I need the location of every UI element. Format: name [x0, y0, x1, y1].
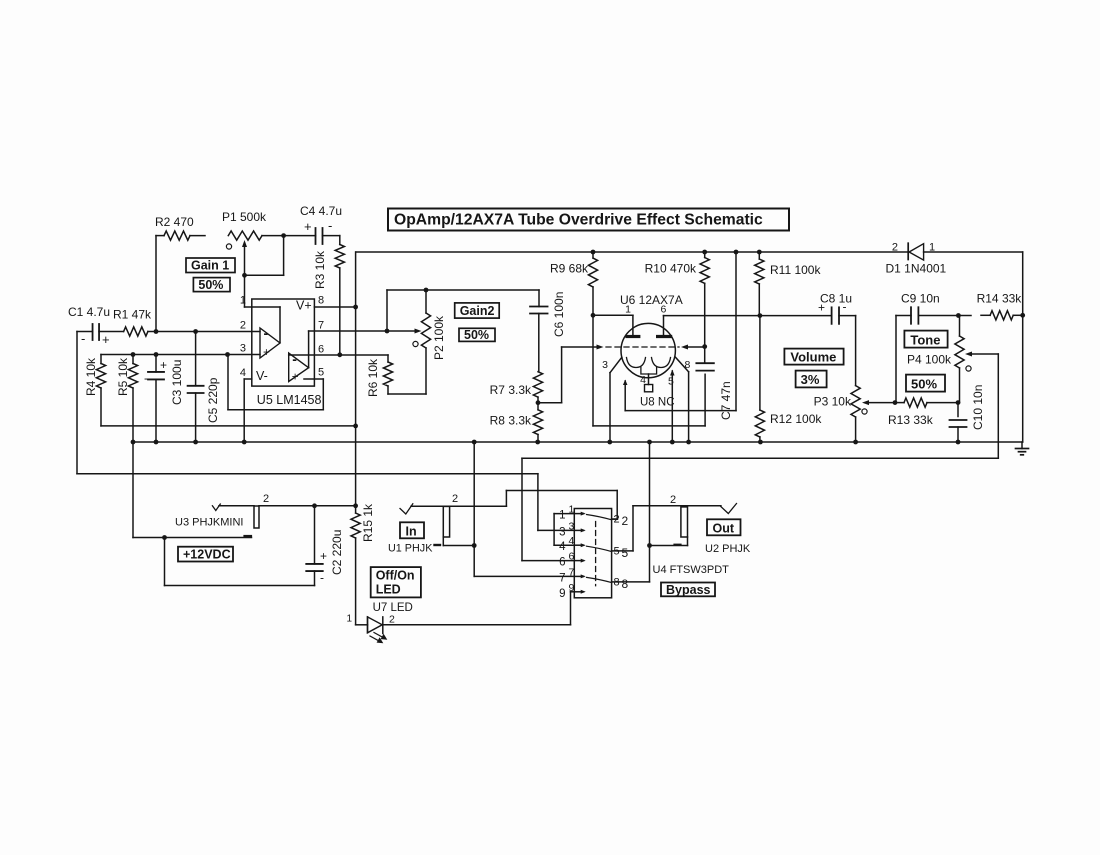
- svg-text:-: -: [843, 300, 847, 314]
- wire: R2 branch up from input node: [155, 236, 157, 332]
- svg-text:-: -: [320, 571, 324, 585]
- svg-text:2: 2: [892, 242, 898, 254]
- label box 50% (gain2): [459, 328, 495, 342]
- power jack U3 barrel: [254, 493, 269, 528]
- svg-text:Volume: Volume: [790, 350, 836, 365]
- capacitor C4 4.7u: [284, 204, 342, 244]
- wire: LED cathode to switch pin9: [383, 592, 571, 625]
- wire: switch pin3 connection: [538, 529, 574, 531]
- svg-text:-: -: [264, 325, 269, 341]
- svg-text:Off/On: Off/On: [376, 569, 415, 583]
- svg-text:Gain 1: Gain 1: [191, 259, 229, 273]
- wire: U3 tip +12V node to C2 and R15: [259, 503, 358, 508]
- label box Out: [707, 519, 741, 535]
- capacitor C5 220p: [188, 332, 220, 445]
- svg-text:R14 33k: R14 33k: [977, 291, 1023, 305]
- wire: U1 sleeve to ground line: [435, 537, 477, 548]
- wire: P2 top to wiper node and C6: [387, 288, 539, 331]
- wire: C2 ground return: [165, 538, 315, 586]
- wire: P1 wiper down to U5 pin1 output: [245, 275, 281, 342]
- wire: U2 sleeve to ground: [650, 537, 688, 546]
- svg-text:6: 6: [559, 557, 565, 569]
- tube grid dashed line with arrows: [606, 345, 705, 350]
- potentiometer P2 100k: [387, 290, 446, 394]
- wire: R4 bottom to V+ line: [101, 388, 358, 428]
- label box +12VDC: [178, 547, 233, 562]
- svg-text:50%: 50%: [198, 278, 223, 292]
- svg-text:U2 PHJK: U2 PHJK: [705, 543, 751, 555]
- wire: R7/R8 node to tube grid: [538, 345, 604, 403]
- svg-text:-: -: [81, 331, 85, 346]
- svg-text:-: -: [292, 351, 297, 367]
- wire: R3 bottom down to U5 pin6 node: [339, 268, 341, 355]
- wire: tone wiper to bypass switch pin6: [522, 354, 998, 561]
- svg-text:C7 47n: C7 47n: [719, 381, 733, 420]
- resistor R7 3.3k: [490, 372, 543, 405]
- svg-text:1: 1: [346, 614, 352, 625]
- label U8 NC: [640, 397, 675, 409]
- svg-text:R10 470k: R10 470k: [645, 262, 697, 276]
- wire: V+ vertical (top rail to U5 pin8, R4 feed, +12V node): [355, 252, 357, 506]
- wire: plate B pin6 to R11 node and C8: [664, 313, 832, 318]
- capacitor C3 100u: [144, 352, 184, 444]
- svg-text:U4 FTSW3PDT: U4 FTSW3PDT: [653, 564, 730, 576]
- label box 50% (gain1): [193, 278, 230, 292]
- U5 pin labels: [240, 295, 324, 380]
- svg-text:P1 500k: P1 500k: [222, 210, 267, 224]
- svg-text:C4 4.7u: C4 4.7u: [300, 204, 342, 218]
- svg-text:C6 100n: C6 100n: [552, 292, 566, 337]
- svg-text:R2 470: R2 470: [155, 215, 194, 229]
- wire: C1 ground-side loop to switch pin3: [77, 332, 538, 531]
- wire: U1 tip to switch pin2: [506, 491, 617, 520]
- label box Bypass: [661, 583, 715, 597]
- svg-text:50%: 50%: [911, 376, 937, 391]
- resistor R6 10k: [366, 355, 426, 397]
- svg-text:4: 4: [240, 367, 246, 379]
- input jack U1 barrel: [443, 493, 458, 537]
- label box 50% (tone): [906, 375, 945, 392]
- svg-text:3: 3: [240, 343, 246, 355]
- wire: switch pin8 to ground rail: [618, 440, 652, 582]
- svg-text:R15 1k: R15 1k: [361, 503, 375, 542]
- label box Gain 1: [186, 258, 235, 273]
- wire: input node R1 to U5 pin2: [148, 329, 260, 334]
- wire: plate A node to C7 bottom: [593, 315, 705, 426]
- svg-text:4: 4: [559, 541, 566, 553]
- wire: U5 pin5 to bias branch: [228, 355, 323, 410]
- label box Off/On LED: [371, 567, 421, 597]
- resistor R13 33k: [888, 398, 960, 427]
- svg-text:Bypass: Bypass: [666, 583, 711, 597]
- svg-text:Gain2: Gain2: [460, 304, 495, 318]
- wire: U5 pin6 line to R3/R6: [289, 352, 388, 357]
- wire: ground rail: [132, 441, 1023, 443]
- switch left contact stubs with pin numbers: [559, 504, 586, 600]
- svg-text:R5 10k: R5 10k: [116, 357, 130, 396]
- svg-text:2: 2: [614, 514, 620, 526]
- svg-text:5: 5: [668, 376, 674, 388]
- svg-text:P4 100k: P4 100k: [907, 353, 952, 367]
- svg-text:R9 68k: R9 68k: [550, 262, 589, 276]
- svg-text:2: 2: [622, 514, 629, 528]
- title box: OpAmp/12AX7A Tube Overdrive Effect Schematic: [388, 209, 789, 231]
- svg-text:+12VDC: +12VDC: [183, 548, 231, 562]
- svg-text:R1 47k: R1 47k: [113, 308, 152, 322]
- resistor R12 100k: [755, 316, 822, 445]
- input jack U1 PHJK tip contact: [400, 504, 506, 514]
- svg-text:U1 PHJK: U1 PHJK: [388, 543, 433, 555]
- svg-text:C3 100u: C3 100u: [170, 360, 184, 405]
- wire: P1 wiper tie loop to P1 right end: [242, 236, 284, 278]
- potentiometer P1 500k: [222, 210, 286, 275]
- svg-text:R7 3.3k: R7 3.3k: [490, 383, 532, 397]
- svg-text:+: +: [320, 549, 327, 563]
- capacitor C7 47n: [696, 347, 733, 420]
- label box Tone: [904, 331, 947, 348]
- svg-text:+: +: [160, 358, 167, 372]
- wire: switch pin1-pin4 jumper: [554, 514, 574, 546]
- resistor R9 68k: [550, 250, 598, 318]
- svg-text:Out: Out: [713, 521, 735, 535]
- wire: ground rail to U1 sleeve and switch pin7: [472, 440, 574, 577]
- label box In: [400, 522, 424, 538]
- label box Gain2: [455, 303, 500, 318]
- tube pin4 NC square: [640, 374, 653, 392]
- svg-text:1: 1: [240, 295, 246, 307]
- svg-text:C9 10n: C9 10n: [901, 292, 940, 306]
- svg-text:+: +: [263, 347, 270, 359]
- resistor R1 47k: [113, 308, 152, 337]
- svg-text:2: 2: [240, 320, 246, 332]
- wire: switch pin6 connection: [522, 560, 574, 562]
- tube plate A bar and pin1: [625, 304, 639, 337]
- svg-text:D1 1N4001: D1 1N4001: [886, 262, 947, 276]
- svg-text:+: +: [304, 219, 312, 234]
- switch throw arms: [587, 515, 612, 583]
- capacitor C6 100n: [530, 292, 566, 372]
- label U3 PHJKMINI: [175, 517, 243, 529]
- svg-text:R4 10k: R4 10k: [84, 357, 98, 396]
- wire: R5 bottom through ground rail to U3 sleeve: [131, 388, 136, 538]
- svg-text:U8 NC: U8 NC: [640, 397, 675, 409]
- svg-text:U7 LED: U7 LED: [373, 602, 413, 614]
- svg-text:8: 8: [318, 295, 324, 307]
- wire: U5 pin4 to ground: [242, 379, 252, 444]
- svg-text:3: 3: [559, 526, 565, 538]
- svg-text:6: 6: [318, 344, 324, 356]
- capacitor C10 10n: [950, 385, 986, 445]
- tube pin3 cathode to ground: [602, 357, 622, 444]
- capacitor C2 220u: [306, 506, 344, 586]
- wire: bias line to U5 pin3: [101, 352, 260, 357]
- label box Volume: [784, 349, 843, 365]
- label U4 FTSW3PDT: [653, 564, 730, 576]
- svg-text:C10 10n: C10 10n: [971, 385, 985, 430]
- svg-text:8: 8: [622, 577, 629, 591]
- resistor R14 33k: [958, 291, 1025, 320]
- resistor R8 3.3k: [490, 403, 543, 445]
- svg-text:U3 PHJKMINI: U3 PHJKMINI: [175, 517, 243, 529]
- wire: plate A to tube pin1: [593, 314, 633, 316]
- svg-text:R11 100k: R11 100k: [770, 263, 821, 277]
- wire: U3 sleeve line: [133, 535, 252, 540]
- power jack U3 PHJKMINI tip contact: [212, 504, 254, 511]
- switch right pole stubs with pin numbers: [612, 514, 629, 591]
- svg-text:2: 2: [452, 493, 458, 505]
- svg-text:R12 100k: R12 100k: [770, 412, 822, 426]
- svg-text:1: 1: [625, 304, 631, 316]
- LED U7: [368, 602, 413, 643]
- tube pin8 cathode to ground: [676, 357, 691, 444]
- svg-text:6: 6: [661, 304, 667, 316]
- wire: R15 to LED anode: [346, 538, 367, 625]
- switch U4 FTSW3PDT body: [574, 509, 611, 598]
- svg-text:7: 7: [559, 572, 565, 584]
- resistor R3 10k: [313, 236, 344, 289]
- svg-text:9: 9: [559, 588, 565, 600]
- capacitor C8 1u: [818, 292, 856, 324]
- capacitor C9 10n: [896, 292, 961, 403]
- potentiometer P4 100k (Tone): [907, 316, 998, 403]
- resistor R5 10k: [116, 355, 138, 397]
- svg-text:2: 2: [389, 614, 395, 626]
- output jack U2 barrel: [670, 494, 688, 537]
- svg-text:1: 1: [929, 242, 935, 254]
- svg-text:5: 5: [622, 546, 629, 560]
- resistor R2 470: [155, 215, 205, 240]
- label box 3%: [796, 371, 827, 388]
- svg-text:R13 33k: R13 33k: [888, 413, 934, 427]
- tube U6 12AX7A envelope: [620, 293, 683, 378]
- svg-text:5: 5: [318, 367, 324, 379]
- svg-text:2: 2: [263, 493, 269, 505]
- capacitor C1 4.7u: [68, 305, 124, 347]
- op-amp U5 section A triangle: [260, 325, 280, 359]
- op-amp U5 section B triangle: [289, 351, 309, 384]
- tube cathode structures: [627, 358, 671, 375]
- wire: heater supply from top rail: [625, 250, 738, 411]
- svg-text:-: -: [328, 218, 332, 233]
- svg-text:1: 1: [559, 510, 565, 522]
- svg-text:+: +: [102, 332, 110, 347]
- svg-text:V-: V-: [256, 369, 268, 383]
- label U1 PHJK: [388, 543, 433, 555]
- resistor R11 100k: [755, 250, 822, 316]
- svg-text:7: 7: [569, 566, 575, 578]
- svg-text:R3 10k: R3 10k: [313, 250, 327, 289]
- svg-text:OpAmp/12AX7A Tube Overdrive Ef: OpAmp/12AX7A Tube Overdrive Effect Schem…: [394, 212, 763, 229]
- svg-text:2: 2: [670, 494, 676, 506]
- svg-text:C1 4.7u: C1 4.7u: [68, 305, 110, 319]
- op-amp U5 LM1458 package box: [252, 299, 322, 408]
- tube pin5 heater to ground: [668, 370, 675, 445]
- wire: U5 pin8 V+ connection: [314, 305, 358, 310]
- resistor R10 470k: [645, 250, 710, 349]
- svg-text:8: 8: [685, 359, 691, 371]
- output jack U2 PHJK tip contact: [721, 504, 737, 514]
- svg-text:-: -: [144, 371, 148, 385]
- svg-text:7: 7: [318, 320, 324, 332]
- label U2 PHJK: [705, 543, 751, 555]
- svg-text:3: 3: [602, 359, 608, 371]
- svg-text:3%: 3%: [801, 372, 820, 387]
- resistor R4 10k: [84, 355, 106, 397]
- svg-text:U5 LM1458: U5 LM1458: [257, 393, 322, 407]
- svg-text:+: +: [818, 301, 825, 315]
- tube heater left lead with arrow: [623, 380, 628, 411]
- svg-text:C2 220u: C2 220u: [330, 530, 344, 575]
- svg-text:P2 100k: P2 100k: [432, 315, 446, 360]
- wire: +12V top rail: [356, 252, 1023, 442]
- wire: U5 pin7 output to P2 wiper node: [309, 329, 390, 368]
- svg-text:+: +: [292, 372, 299, 384]
- svg-text:P3 10k: P3 10k: [814, 395, 852, 409]
- potentiometer P3 10k (Volume): [814, 316, 895, 445]
- svg-text:Tone: Tone: [910, 332, 940, 347]
- tube plate B bar and pin6: [658, 304, 671, 337]
- svg-text:In: In: [406, 524, 417, 538]
- diode D1 1N4001: [886, 242, 947, 276]
- svg-text:LED: LED: [376, 583, 401, 597]
- wire: volume wiper line to R13 and C9: [893, 400, 904, 405]
- svg-text:V+: V+: [296, 299, 312, 313]
- ground symbol: [1016, 442, 1029, 455]
- svg-text:C5 220p: C5 220p: [206, 377, 220, 423]
- svg-text:R8 3.3k: R8 3.3k: [490, 414, 532, 428]
- wire: switch pin5 to output jack tip: [618, 506, 721, 551]
- svg-text:50%: 50%: [464, 328, 489, 342]
- svg-text:R6 10k: R6 10k: [366, 358, 380, 397]
- svg-text:4: 4: [640, 374, 646, 386]
- wire: switch pin9 stub: [571, 591, 575, 593]
- resistor R15 1k: [351, 503, 375, 542]
